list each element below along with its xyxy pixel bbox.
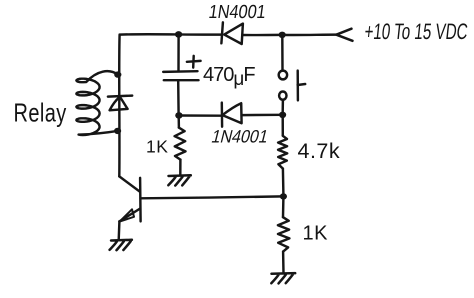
- wire switch node down to switch S1: [281, 35, 284, 70]
- wire C1 bottom plate down to mid node: [177, 80, 180, 113]
- wire R1 bottom lead: [179, 160, 182, 176]
- wire top rail right segment to supply arrow: [282, 33, 338, 36]
- wire R4 top lead: [282, 198, 285, 218]
- switch S1 top contact circle: [279, 71, 287, 80]
- junction top rail switch node: [279, 32, 286, 38]
- wire R1 top lead: [177, 116, 180, 127]
- switch S1 actuator lever: [298, 71, 306, 101]
- diode D3 triangle: [110, 97, 128, 111]
- diode D1 cathode bar: [221, 22, 223, 43]
- ground for R1: [168, 175, 191, 185]
- transistor Q1 collector slant: [119, 176, 140, 191]
- wire capacitor node down to C1 top plate: [177, 35, 180, 72]
- diode D1 triangle: [224, 24, 243, 44]
- junction base node (R3 / R4 / base wire): [280, 193, 287, 199]
- resistor R3 4.7K zigzag: [278, 136, 287, 169]
- svg-text:Relay: Relay: [14, 98, 67, 127]
- wire Q1 emitter down to ground: [117, 221, 120, 240]
- capacitor C1 bottom plate: [164, 79, 199, 81]
- wire mid rail left segment: [179, 114, 222, 117]
- junction relay bottom node: [114, 128, 121, 134]
- transistor Q1 base bar: [139, 178, 142, 222]
- wire top rail mid segment (diode anode to switch node): [243, 34, 282, 37]
- transistor Q1 emitter slant: [119, 209, 140, 222]
- node supply text +10 TO 15 VDC: [363, 20, 469, 44]
- svg-text:1K: 1K: [303, 223, 329, 245]
- wire R3 bottom lead: [282, 169, 285, 195]
- wire switch S1 bottom to mid rail: [281, 100, 284, 112]
- svg-text:470μF: 470μF: [203, 64, 255, 90]
- ground for R4: [271, 273, 295, 283]
- label 1N4001 bottom: [209, 126, 270, 147]
- diode D2 cathode bar: [221, 103, 224, 127]
- label 1N4001 top: [207, 2, 267, 23]
- wire mid rail right segment: [242, 114, 283, 117]
- junction mid rail left node (C1 / R1 / D2): [175, 112, 182, 119]
- capacitor C1 top plate: [163, 70, 197, 73]
- wire left vertical (V+ rail down to transistor collector): [118, 35, 121, 177]
- junction mid rail right node (switch / D2 / R3): [279, 112, 286, 118]
- diode D3 flyback across relay coil (cathode bar): [108, 96, 132, 97]
- wire top rail left segment: [120, 33, 221, 36]
- svg-text:1N4001: 1N4001: [207, 2, 267, 23]
- resistor R1 1K zigzag: [175, 128, 186, 160]
- diode D2 triangle: [222, 103, 241, 123]
- svg-text:4.7k: 4.7k: [298, 139, 341, 163]
- wire R3 top lead: [281, 115, 284, 136]
- supply input arrow (+10 to 15 VDC): [336, 29, 352, 41]
- junction relay top node: [114, 71, 121, 77]
- resistor R4 1K zigzag: [278, 217, 290, 251]
- svg-text:1K: 1K: [146, 137, 168, 157]
- ground for Q1 emitter: [110, 240, 132, 250]
- svg-text:+10 To 15 VDC: +10 To 15 VDC: [363, 20, 469, 44]
- switch S1 bottom contact circle: [279, 92, 286, 100]
- svg-text:1N4001: 1N4001: [209, 126, 270, 147]
- relay coil K1: [76, 71, 117, 135]
- capacitor C1 plus sign: [187, 56, 201, 68]
- junction top rail capacitor node: [175, 31, 182, 38]
- wire R4 bottom lead: [282, 252, 285, 273]
- wire Q1 base to divider node: [141, 196, 284, 198]
- transistor Q1 emitter arrowhead: [120, 209, 134, 221]
